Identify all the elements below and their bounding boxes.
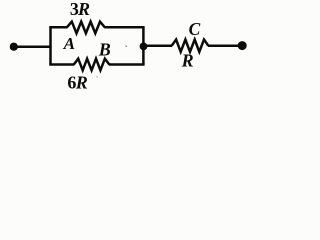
resistor 6R (bottom branch) [74,59,110,71]
wire: top branch left lead [49,26,67,29]
scan speck near node B [125,45,127,47]
wire: resistor to right terminal [208,44,242,47]
wire: right vertical of parallel section [142,27,145,64]
svg-text:R: R [181,51,194,71]
right terminal [238,41,247,50]
svg-text:6R: 6R [67,73,87,93]
svg-text:3R: 3R [70,0,90,19]
svg-text:C: C [189,19,201,39]
svg-text:B: B [98,40,111,60]
resistor 3R (top branch) [67,22,105,34]
wire: left vertical of parallel section [49,27,52,64]
wire: junction to resistor C [144,45,173,48]
wire: left terminal to parallel branch [14,46,52,49]
resistor R (series section labelled C) [172,40,209,52]
faint scan smudge above 6R [96,76,98,78]
left terminal [10,43,18,51]
wire: top branch right lead [104,26,144,29]
wire: bottom branch left lead [49,63,74,66]
wire: bottom branch right lead [109,63,145,66]
svg-text:A: A [63,34,75,53]
junction node dot [140,43,148,51]
